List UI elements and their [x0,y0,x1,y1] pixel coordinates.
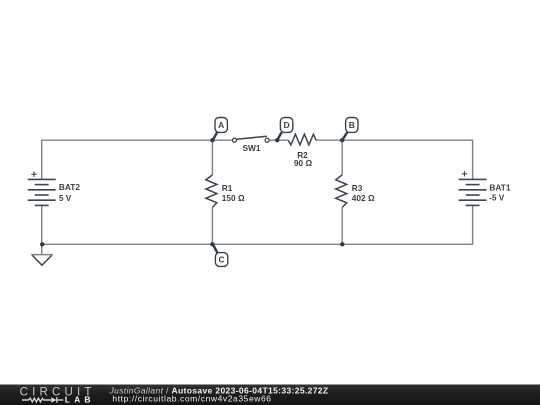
wire BAT2 bottom lead [41,205,43,244]
logo diode [51,397,63,403]
svg-text:LAB: LAB [65,395,95,405]
svg-text:http://circuitlab.com/cnw4v2a3: http://circuitlab.com/cnw4v2a35ew66 [112,394,271,404]
svg-text:BAT1: BAT1 [489,182,510,192]
svg-text:A: A [218,120,224,130]
node A label box [215,118,227,133]
svg-text:B: B [349,120,355,130]
wire R2 right lead to node B [316,139,342,141]
node D pointer [278,132,282,139]
svg-text:90 Ω: 90 Ω [294,158,313,168]
resistor R1 labels [222,183,245,203]
svg-text:402 Ω: 402 Ω [352,193,375,203]
footer bar [0,384,540,405]
svg-text:BAT2: BAT2 [59,182,80,192]
svg-text:D: D [284,120,290,130]
battery BAT2 [28,179,56,205]
wire switch right terminal to node D and R2 [269,139,288,141]
node C pointer [213,245,217,253]
node B label box [346,118,358,133]
junction dot node C [210,242,214,246]
node C label box [215,253,227,267]
svg-text:C: C [219,255,225,265]
resistor R3 labels [352,183,375,203]
wire R3 bottom lead [341,207,343,244]
battery BAT1 labels [489,182,511,202]
wire R3 top lead [341,140,343,175]
junction dot node A [210,138,214,142]
battery BAT1 [459,179,487,205]
wire R1 top lead [211,140,213,175]
wire node B to BAT1 top [342,140,472,179]
wire top-left from BAT2 to node A [42,140,213,179]
wire node A to switch left terminal [212,139,232,141]
logo resistor zigzag [22,398,51,402]
resistor R3 [336,175,347,208]
junction dot node B [340,138,344,142]
svg-text:-5 V: -5 V [489,193,505,203]
switch SW1 lever [237,136,267,139]
junction dot ground [40,242,44,246]
svg-text:R3: R3 [352,183,363,193]
battery BAT2 labels [59,182,80,203]
node B pointer [343,132,347,139]
svg-text:150 Ω: 150 Ω [222,193,245,203]
node D label box [280,118,292,133]
resistor R2 labels [294,150,313,168]
junction dot below R3 [340,242,344,246]
wire bottom rail [42,205,473,244]
switch SW1 left terminal [233,138,237,142]
junction dot node D [275,138,279,142]
wire ground lead [41,244,43,254]
resistor R2 [288,134,316,145]
svg-text:R1: R1 [222,183,233,193]
battery BAT2 plus sign [31,172,36,177]
switch SW1 right terminal [265,138,269,142]
resistor R1 [206,175,217,208]
ground [31,255,53,266]
wire R1 bottom lead [211,207,213,244]
svg-text:5 V: 5 V [59,193,72,203]
battery BAT1 plus sign [462,171,467,176]
node A pointer [213,132,217,139]
svg-text:SW1: SW1 [243,143,261,153]
